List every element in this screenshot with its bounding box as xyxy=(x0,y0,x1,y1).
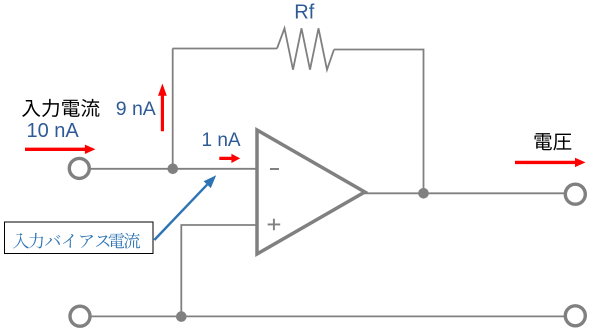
wire feedback right vertical xyxy=(423,49,425,194)
op-amp plus input sign xyxy=(268,219,281,231)
arrow 9nA red up xyxy=(158,84,167,132)
annotation arrow blue callout line xyxy=(154,185,207,240)
wire inverting input xyxy=(88,168,257,170)
terminal bottom right circle xyxy=(565,306,585,326)
op-amp minus input sign xyxy=(270,168,279,170)
label input current kanji xyxy=(22,99,99,117)
wire feedback left vertical xyxy=(172,49,174,169)
resistor Rf zigzag xyxy=(277,28,334,69)
terminal input left circle xyxy=(69,158,89,178)
annotation arrow blue head xyxy=(204,175,217,188)
wire top feedback horizontal right segment xyxy=(334,49,424,51)
op-amp U1 triangle xyxy=(257,130,365,254)
label voltage kanji xyxy=(534,133,571,150)
arrow 1nA red xyxy=(219,154,240,163)
node input junction xyxy=(168,164,179,175)
arrow input current red xyxy=(25,145,95,154)
wire top feedback horizontal left segment xyxy=(173,48,278,50)
node bottom junction xyxy=(176,311,187,322)
wire output xyxy=(365,192,567,194)
arrow output voltage red xyxy=(515,158,586,167)
svg-text:9 nA: 9 nA xyxy=(116,98,156,120)
svg-text:1 nA: 1 nA xyxy=(202,130,241,151)
label input bias current kanji xyxy=(13,233,140,249)
svg-text:10 nA: 10 nA xyxy=(27,120,80,142)
terminal bottom left circle xyxy=(70,306,90,326)
wire bottom rail xyxy=(89,315,566,317)
svg-text:Rf: Rf xyxy=(294,2,314,24)
annotation box input bias current xyxy=(5,222,154,254)
node output junction xyxy=(418,188,429,199)
terminal output right circle xyxy=(565,184,585,204)
wire non-inverting input with corner xyxy=(181,225,257,317)
